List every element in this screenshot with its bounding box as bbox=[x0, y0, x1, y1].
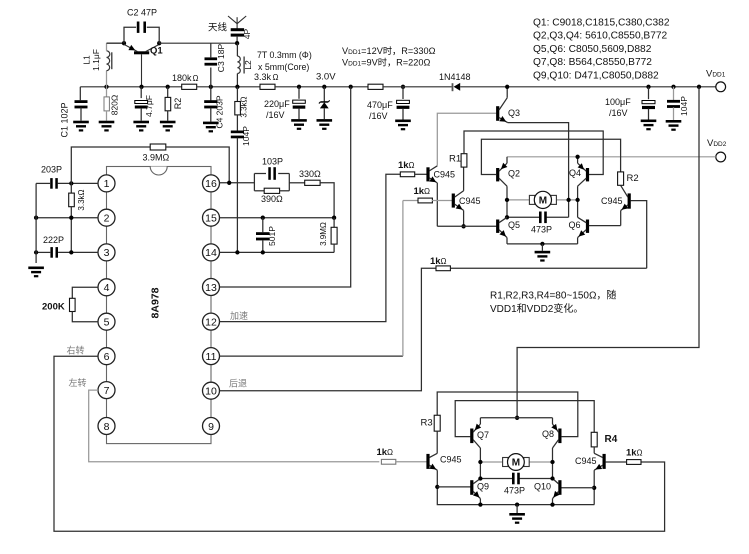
svg-text:Q2: Q2 bbox=[508, 169, 520, 179]
wire 1k4 to C945#4 base (gray) bbox=[396, 461, 427, 463]
resistor R1 bbox=[463, 167, 465, 191]
svg-text:Q4: Q4 bbox=[569, 168, 581, 178]
transistor Q5 bbox=[496, 220, 499, 233]
svg-text:L1: L1 bbox=[82, 55, 92, 65]
wire pin 4 to 200K bbox=[72, 287, 98, 298]
wire pin 15 bbox=[220, 217, 335, 219]
resistor 1k (pin11 line) bbox=[418, 198, 432, 203]
IC pin 4 bbox=[98, 279, 115, 296]
svg-text:C3 18P: C3 18P bbox=[216, 43, 226, 72]
svg-text:Ω: Ω bbox=[637, 449, 643, 458]
svg-text:1.1μF: 1.1μF bbox=[91, 49, 101, 71]
svg-text:Ω: Ω bbox=[273, 73, 279, 82]
svg-text:R1: R1 bbox=[449, 154, 461, 165]
transistor Q7 bbox=[470, 429, 473, 444]
node L2 junction bbox=[235, 85, 239, 89]
svg-text:Q9,Q10: D471,C8050,D882: Q9,Q10: D471,C8050,D882 bbox=[533, 70, 659, 81]
resistor 1k (pin6 line) bbox=[627, 460, 641, 465]
svg-text:右转: 右转 bbox=[67, 345, 85, 356]
node pin15 junctions bbox=[332, 216, 336, 220]
resistor R2 (bridge) bbox=[618, 172, 624, 185]
svg-text:13: 13 bbox=[205, 282, 217, 294]
svg-text:Ω: Ω bbox=[193, 74, 199, 83]
svg-text:7: 7 bbox=[104, 385, 110, 397]
svg-text:6: 6 bbox=[104, 351, 110, 363]
capacitor 4P bbox=[231, 28, 244, 31]
IC pin 15 bbox=[203, 209, 220, 226]
wire Q9 base bbox=[437, 486, 470, 488]
node IC supply feed bbox=[349, 85, 353, 89]
svg-text:Ω: Ω bbox=[409, 161, 415, 170]
svg-text:VDD1和VDD2变化。: VDD1和VDD2变化。 bbox=[490, 302, 583, 315]
ground for zener bbox=[317, 119, 333, 122]
node motor M1 junctions bbox=[505, 198, 509, 202]
node C3/C4 junction bbox=[209, 85, 213, 89]
ground for 4.7uF bbox=[133, 121, 149, 124]
svg-text:203P: 203P bbox=[41, 165, 62, 175]
svg-text:14: 14 bbox=[205, 247, 217, 259]
wire Q3 emitter to rail bbox=[506, 87, 508, 98]
wire 1k5 to C945#5 base bbox=[605, 461, 626, 463]
wire main supply rail segment A bbox=[80, 86, 184, 88]
IC pin 1 bbox=[98, 175, 115, 192]
wire C945#1 emitter down bbox=[436, 183, 438, 226]
IC pin 8 bbox=[98, 418, 115, 435]
wire IC supply feed to pin 13 bbox=[220, 87, 351, 287]
IC pin 7 bbox=[98, 382, 115, 399]
svg-text:4P: 4P bbox=[242, 28, 252, 39]
wire 330 to pin15 node bbox=[320, 183, 334, 218]
node pin14 junctions bbox=[235, 250, 239, 254]
wire 1k to C945#1 base bbox=[415, 173, 427, 175]
node Q1 collector corner bbox=[157, 41, 161, 45]
resistor 3.3k vertical (under L2) bbox=[236, 87, 238, 102]
IC pin 13 bbox=[203, 279, 220, 296]
svg-text:100μF: 100μF bbox=[605, 97, 631, 107]
wire pin 7 loop to 1k (bridge2 left, gray) bbox=[89, 390, 380, 462]
wire rail segment B bbox=[197, 86, 261, 88]
capacitor 222P bbox=[50, 247, 53, 258]
wire C945#3 emitter to Q6 base bbox=[620, 211, 622, 226]
node 470uF junction bbox=[401, 85, 405, 89]
svg-text:C945: C945 bbox=[440, 455, 462, 465]
resistor 180k bbox=[182, 84, 197, 89]
node Q5 collector junction bbox=[505, 215, 509, 219]
svg-text:C2 47P: C2 47P bbox=[127, 8, 157, 18]
svg-text:/16V: /16V bbox=[369, 111, 388, 121]
capacitor 473P #2 bbox=[480, 478, 512, 480]
wire C945#1 collector to Q3 base bbox=[437, 113, 496, 166]
wire to Q5 base bbox=[437, 225, 496, 227]
transistor C945 #3 (mirrored) bbox=[628, 193, 631, 208]
svg-text:Q10: Q10 bbox=[534, 482, 551, 492]
svg-text:C1 102P: C1 102P bbox=[60, 102, 70, 137]
svg-text:9: 9 bbox=[208, 421, 214, 433]
transistor Q8 (mirrored) bbox=[558, 429, 561, 444]
wire pin 10 loop to 1k3 bbox=[220, 268, 437, 390]
svg-text:Ω: Ω bbox=[441, 257, 447, 266]
svg-text:C945: C945 bbox=[601, 196, 623, 206]
svg-text:3.9MΩ: 3.9MΩ bbox=[319, 222, 328, 246]
svg-text:222P: 222P bbox=[43, 235, 64, 245]
capacitor C4 203P bbox=[210, 87, 212, 101]
resistor 3.3k horizontal bbox=[260, 84, 275, 89]
svg-text:Q7,Q8: B564,C8550,B772: Q7,Q8: B564,C8550,B772 bbox=[533, 57, 652, 68]
capacitor 100uF/16V bbox=[648, 87, 650, 99]
IC pin 3 bbox=[98, 244, 115, 261]
svg-text:3.3kΩ: 3.3kΩ bbox=[240, 96, 249, 117]
capacitor 473P bbox=[507, 216, 539, 218]
svg-text:473P: 473P bbox=[531, 225, 552, 235]
wire C945#5 emitter down to bottom bbox=[593, 470, 595, 504]
wire left ground branch bbox=[35, 183, 37, 263]
wire Q10 emitter down bbox=[552, 499, 554, 505]
svg-text:820Ω: 820Ω bbox=[110, 95, 120, 116]
capacitor 220uF/16V bbox=[297, 85, 301, 89]
svg-text:1N4148: 1N4148 bbox=[439, 72, 471, 82]
wire Q7 base loop to R4 bbox=[455, 401, 594, 437]
IC pin 14 bbox=[203, 244, 220, 261]
IC pin 12 bbox=[203, 313, 220, 330]
wire Q3 collector to bridge right mid bbox=[508, 123, 569, 218]
resistor 390 (parallel) bbox=[254, 190, 264, 192]
ground for C4 bbox=[203, 122, 219, 125]
wire pin 2 bbox=[36, 217, 98, 219]
transistor C945 #4 bbox=[426, 454, 429, 469]
svg-text:470μF: 470μF bbox=[367, 100, 393, 110]
svg-text:Q6: Q6 bbox=[569, 220, 581, 230]
svg-text:104P: 104P bbox=[241, 126, 251, 146]
svg-text:5: 5 bbox=[104, 317, 110, 329]
svg-text:3: 3 bbox=[104, 247, 110, 259]
wire Q7 emitter stub bbox=[479, 418, 481, 424]
svg-text:Q2,Q3,Q4: 5610,C8550,B772: Q2,Q3,Q4: 5610,C8550,B772 bbox=[533, 31, 668, 42]
ground for 104P bbox=[666, 120, 682, 123]
wire Q1 collector to antenna node bbox=[159, 42, 237, 44]
svg-text:Q8: Q8 bbox=[542, 429, 554, 439]
svg-text:1: 1 bbox=[104, 178, 110, 190]
node bridge2 feed junction bbox=[515, 416, 519, 420]
wire C945#4 emitter down to bottom bbox=[437, 470, 594, 504]
svg-text:11: 11 bbox=[206, 351, 217, 363]
ground for 470uF bbox=[395, 120, 411, 123]
node Q1 base junction bbox=[139, 85, 143, 89]
svg-text:x 5mm(Core): x 5mm(Core) bbox=[258, 62, 309, 72]
svg-text:C945: C945 bbox=[459, 196, 481, 206]
wire Q2 collector down bbox=[506, 186, 508, 217]
svg-text:103P: 103P bbox=[262, 157, 283, 167]
ground bridge2 bbox=[516, 505, 518, 513]
wire pin 1 bbox=[58, 182, 98, 184]
wire R1 top to Q4 base bbox=[464, 131, 603, 175]
wire Q4 emitter to VDD2 line bbox=[577, 157, 579, 163]
svg-text:4: 4 bbox=[104, 282, 110, 294]
resistor 1k (pin12 line) bbox=[400, 172, 414, 177]
wire Q8 base loop to R3 bbox=[437, 392, 578, 437]
IC pin 6 bbox=[98, 348, 115, 365]
wire R4 to C945#5 collector bbox=[593, 447, 595, 453]
svg-text:R1,R2,R3,R4=80~150Ω，随: R1,R2,R3,R4=80~150Ω，随 bbox=[490, 289, 616, 302]
node VDD1 branch junction bbox=[697, 85, 701, 89]
wire Q7 collector down bbox=[479, 448, 481, 479]
svg-text:R2: R2 bbox=[173, 98, 183, 110]
svg-text:12: 12 bbox=[205, 316, 217, 328]
wire 1k to C945#2 base (gray) bbox=[432, 200, 452, 202]
wire pin 16 bbox=[220, 182, 255, 184]
wire bridge1 bottom bbox=[507, 243, 578, 245]
wire pin 11 loop to 1k2 (gray) bbox=[220, 355, 403, 357]
svg-text:L2: L2 bbox=[243, 60, 253, 70]
svg-text:220μF: 220μF bbox=[264, 99, 290, 109]
antenna bbox=[236, 17, 238, 29]
svg-text:Q5: Q5 bbox=[508, 220, 520, 230]
motor M2 bbox=[480, 461, 502, 463]
IC 8A978 body bbox=[107, 167, 212, 444]
diode 1N4148 bbox=[452, 83, 454, 91]
capacitor C2 47P bbox=[124, 27, 136, 43]
capacitor 501P bbox=[262, 218, 264, 233]
svg-text:R3: R3 bbox=[421, 418, 433, 429]
svg-text:Q7: Q7 bbox=[477, 430, 489, 440]
resistor R4 bbox=[591, 432, 597, 447]
wire Q6 emitter down bbox=[577, 238, 579, 244]
node 104P junction bbox=[671, 85, 675, 89]
node R2 junction bbox=[166, 85, 170, 89]
wire 200K to pin 5 bbox=[72, 312, 98, 322]
IC pin 16 bbox=[203, 175, 220, 192]
svg-text:M: M bbox=[539, 196, 547, 207]
node L1/820 junction bbox=[104, 85, 108, 89]
node antenna junction bbox=[235, 41, 239, 45]
transistor Q3 bbox=[496, 106, 499, 121]
resistor 200K bbox=[70, 298, 76, 311]
svg-text:3.3k: 3.3k bbox=[254, 72, 272, 82]
svg-text:3.0V: 3.0V bbox=[316, 72, 336, 83]
svg-text:4.7μF: 4.7μF bbox=[144, 95, 154, 117]
zener diode bbox=[322, 85, 326, 89]
wire pin 6 long loop to 1k (bridge2 right) bbox=[54, 356, 665, 531]
resistor 3.3k (pin1-pin2) bbox=[70, 183, 72, 192]
svg-text:加速: 加速 bbox=[230, 311, 248, 321]
svg-text:330Ω: 330Ω bbox=[299, 169, 321, 179]
node motor M2 junctions bbox=[478, 460, 482, 464]
svg-text:15: 15 bbox=[205, 213, 217, 225]
wire 1k3 to C945#3 base corner bbox=[450, 267, 646, 269]
node pin16/3.9M junction bbox=[227, 181, 231, 185]
resistor 3.9M (top) bbox=[71, 147, 150, 183]
node pin1/3.3k junction bbox=[69, 181, 73, 185]
node C945#5 emitter / Q10 base junction bbox=[592, 486, 596, 490]
wire pin 12 loop to 1k1 bbox=[220, 174, 401, 321]
wire Q6 base bbox=[589, 225, 621, 227]
wire Q8 emitter stub bbox=[552, 418, 554, 424]
wire Q2 base bbox=[481, 139, 620, 174]
svg-text:/16V: /16V bbox=[609, 108, 628, 118]
wire rail segment C bbox=[275, 86, 368, 88]
capacitor 104P (left) bbox=[231, 131, 244, 134]
wire R3 to C945#4 collector bbox=[436, 431, 438, 453]
ground for 100uF bbox=[641, 120, 657, 123]
svg-text:Q5,Q6: C8050,5609,D882: Q5,Q6: C8050,5609,D882 bbox=[533, 44, 652, 55]
svg-text:后退: 后退 bbox=[229, 379, 247, 389]
terminal VDD2 bbox=[716, 152, 726, 162]
node C945#4 emitter / Q9 base junction bbox=[435, 485, 439, 489]
svg-text:Q3: Q3 bbox=[508, 108, 520, 118]
svg-text:200K: 200K bbox=[42, 302, 65, 313]
svg-text:左转: 左转 bbox=[69, 377, 87, 388]
node pin2 junctions bbox=[34, 216, 38, 220]
transistor C945 #1 bbox=[426, 167, 429, 181]
svg-text:Ω: Ω bbox=[424, 187, 430, 196]
resistor 3.9M vertical bbox=[333, 218, 335, 228]
resistor R2 bbox=[167, 87, 169, 98]
svg-text:Q1: Q1 bbox=[150, 46, 163, 57]
wire Q4 collector down bbox=[577, 186, 579, 217]
resistor 1k (pin7 line) bbox=[381, 459, 395, 464]
IC pin 11 bbox=[203, 348, 220, 365]
node Q3 rail junction bbox=[505, 85, 509, 89]
svg-text:473P: 473P bbox=[504, 486, 525, 496]
capacitor C3 18P bbox=[210, 68, 212, 87]
ground for R2 bbox=[160, 121, 176, 124]
svg-text:Ω: Ω bbox=[387, 448, 393, 457]
node pin3 junctions bbox=[34, 250, 38, 254]
svg-text:3.3kΩ: 3.3kΩ bbox=[77, 189, 86, 210]
capacitor 103P with 390 parallel box bbox=[253, 174, 255, 191]
transistor C945 #2 bbox=[452, 194, 455, 208]
svg-text:104P: 104P bbox=[679, 96, 689, 116]
inductor L1 bbox=[106, 71, 108, 87]
wire pin 14 bbox=[220, 251, 335, 253]
capacitor 104P (right) bbox=[673, 87, 675, 100]
terminal VDD1 bbox=[716, 82, 726, 92]
wire rail segment D bbox=[383, 86, 452, 88]
wire L1 top to Q1 emitter corner bbox=[107, 42, 125, 44]
svg-text:16: 16 bbox=[205, 178, 217, 190]
svg-text:R4: R4 bbox=[605, 434, 618, 445]
transistor Q4 (mirrored) bbox=[586, 168, 589, 181]
ground for 220uF bbox=[291, 119, 307, 122]
svg-text:7T 0.3mm (Φ): 7T 0.3mm (Φ) bbox=[257, 50, 312, 60]
svg-text:3.9MΩ: 3.9MΩ bbox=[143, 153, 170, 163]
inductor L2 bbox=[236, 43, 238, 56]
ground left branch bbox=[28, 267, 44, 270]
svg-text:R2: R2 bbox=[627, 173, 639, 184]
transistor Q9 bbox=[470, 480, 473, 495]
IC pin 9 bbox=[203, 418, 220, 435]
node 100uF junction bbox=[646, 85, 650, 89]
transistor Q6 (mirrored) bbox=[586, 220, 589, 233]
wire Q10 base bbox=[561, 487, 594, 489]
wire Q2 emitter to VDD2 line bbox=[506, 157, 508, 163]
svg-text:天线: 天线 bbox=[208, 22, 228, 34]
capacitor 4.7uF electrolytic bbox=[140, 87, 142, 98]
IC pin 2 bbox=[98, 209, 115, 226]
resistor R3 bbox=[434, 415, 440, 431]
transistor C945 #5 (mirrored) bbox=[603, 454, 606, 469]
transistor Q1 bbox=[134, 51, 149, 54]
svg-text:8: 8 bbox=[104, 421, 110, 433]
ground bridge1 bbox=[541, 244, 543, 251]
capacitor 203P bbox=[50, 178, 53, 189]
wire VDD2 rail (gray) bbox=[507, 156, 716, 158]
transistor Q10 (mirrored) bbox=[558, 480, 561, 495]
node bridge2 bottom junctions bbox=[478, 502, 482, 506]
capacitor 470uF/16V bbox=[402, 87, 404, 99]
wire rail segment E bbox=[460, 86, 716, 88]
svg-text:Q1: C9018,C1815,C380,C382: Q1: C9018,C1815,C380,C382 bbox=[533, 18, 670, 29]
wire C945#3 base loop to 1k3 bbox=[631, 201, 647, 269]
ground for C1 bbox=[73, 121, 89, 124]
IC pin 10 bbox=[203, 382, 220, 399]
transistor Q2 bbox=[496, 168, 499, 181]
resistor 820ohm bbox=[106, 87, 108, 97]
wire C945#2 emitter to Q5 base wire bbox=[463, 210, 465, 226]
ground for 820ohm bbox=[99, 121, 115, 124]
wire Q5 emitter down bbox=[506, 238, 508, 244]
svg-text:8A978: 8A978 bbox=[150, 287, 162, 318]
svg-text:10: 10 bbox=[205, 386, 217, 398]
svg-text:390Ω: 390Ω bbox=[261, 194, 283, 204]
node Q1 emitter corner bbox=[122, 41, 126, 45]
svg-text:/16V: /16V bbox=[266, 110, 285, 120]
svg-text:2: 2 bbox=[104, 213, 110, 225]
svg-text:Q9: Q9 bbox=[477, 482, 489, 492]
wire bridge2 inner top bbox=[480, 417, 552, 419]
capacitor C1 102P bbox=[79, 87, 81, 100]
wire Q8 collector down bbox=[552, 448, 554, 479]
svg-text:C945: C945 bbox=[575, 456, 597, 466]
resistor R (330/220) bbox=[368, 84, 383, 89]
node Q4/VDD2 junction bbox=[575, 155, 579, 159]
wire VDD1 feed down right side bbox=[517, 87, 699, 418]
IC pin 5 bbox=[98, 313, 115, 330]
wire Q9 emitter down bbox=[479, 499, 481, 505]
svg-text:501P: 501P bbox=[267, 226, 277, 246]
svg-text:M: M bbox=[512, 458, 520, 469]
svg-text:C945: C945 bbox=[434, 170, 456, 180]
node C945 emitters join bbox=[461, 224, 465, 228]
resistor 330 bbox=[289, 182, 304, 184]
node bridge1 ground junction bbox=[540, 242, 544, 246]
motor M1 bbox=[507, 199, 529, 201]
resistor 1k (pin10 line) bbox=[436, 266, 450, 271]
node bridge2 mid junctions bbox=[478, 476, 482, 480]
svg-text:180k: 180k bbox=[172, 73, 192, 83]
